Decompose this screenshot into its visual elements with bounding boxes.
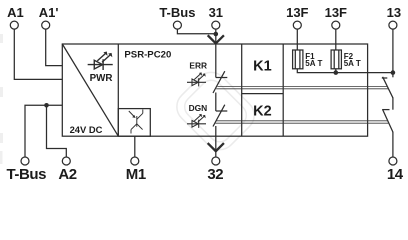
junction node 13 [391, 70, 396, 75]
divider power section [117, 44, 119, 136]
svg-text:PSR-PC20: PSR-PC20 [124, 50, 171, 61]
junction node A2 [44, 103, 49, 108]
terminal M1 [131, 157, 139, 165]
wire 13F right [335, 29, 337, 50]
contact K2 tick [382, 109, 389, 111]
watermark [170, 66, 261, 157]
svg-text:PWR: PWR [90, 73, 113, 84]
contact DGN tick [216, 110, 228, 112]
terminal T-Bus top [173, 21, 181, 29]
contact K1 stub [392, 73, 394, 78]
wire F1 out [297, 69, 393, 73]
optocoupler transistor symbol [129, 110, 143, 134]
arrow into module at 31 [209, 36, 224, 43]
arrow out of module at 32 [209, 144, 224, 151]
junction node F2 out [334, 70, 339, 75]
svg-text:T-Bus: T-Bus [159, 5, 195, 20]
svg-text:A1: A1 [7, 5, 24, 20]
mechanical link K1 [215, 87, 388, 124]
svg-text:ERR: ERR [189, 60, 207, 70]
terminal 13F right [332, 21, 340, 29]
svg-text:32: 32 [207, 166, 223, 183]
svg-text:M1: M1 [126, 166, 146, 183]
LED ERR [187, 72, 206, 86]
terminal T-Bus bottom [21, 157, 29, 165]
wire A1' [46, 29, 63, 66]
svg-text:31: 31 [209, 5, 223, 20]
svg-text:T-Bus: T-Bus [6, 166, 46, 183]
terminal 14 [389, 157, 397, 165]
svg-text:5A T: 5A T [344, 59, 361, 68]
contact DGN blade [213, 105, 225, 127]
optocoupler box [118, 109, 150, 137]
terminal 13 [389, 21, 397, 29]
watermark edge fragments [0, 34, 3, 164]
svg-text:14: 14 [387, 166, 404, 183]
divider K section left [241, 44, 243, 136]
svg-text:DGN: DGN [189, 103, 208, 113]
contact ERR tick [216, 77, 228, 79]
contact ERR blade [213, 71, 225, 93]
power supply diagonal [62, 44, 118, 136]
svg-text:A1': A1' [39, 5, 59, 20]
terminal A1 [10, 21, 18, 29]
wire between right contacts [392, 98, 394, 110]
contact K1 tick [382, 77, 388, 79]
wire 13F left [296, 29, 298, 50]
svg-text:13: 13 [387, 5, 401, 20]
wire 31 [215, 29, 217, 44]
terminal 32 [212, 157, 220, 165]
svg-text:24V DC: 24V DC [70, 124, 103, 135]
wire 31 internal [215, 45, 217, 78]
fuse F1 body [293, 50, 303, 69]
wire between contacts [215, 93, 217, 112]
fuse F2 body [331, 50, 341, 69]
wire M1 [134, 136, 136, 157]
svg-text:5A T: 5A T [305, 59, 322, 68]
svg-text:13F: 13F [325, 5, 347, 20]
wire 13 [392, 29, 394, 73]
terminal A2 [62, 157, 70, 165]
terminal 13F left [293, 21, 301, 29]
wire F2 out [335, 69, 337, 73]
contact K2 blade [383, 109, 394, 132]
wire A2 [47, 105, 67, 157]
wire 32 [215, 126, 217, 157]
svg-text:K2: K2 [253, 104, 272, 120]
contact K1 blade [383, 77, 393, 98]
module outline box [62, 44, 367, 136]
terminal A1' [42, 21, 50, 29]
svg-text:A2: A2 [58, 166, 76, 183]
wire 14 [392, 132, 394, 157]
wire T-Bus bottom [25, 105, 62, 157]
svg-text:K1: K1 [253, 58, 272, 74]
terminal 31 [212, 21, 220, 29]
divider K section right [282, 44, 284, 136]
divider K1 K2 [242, 93, 284, 95]
svg-text:13F: 13F [286, 5, 308, 20]
LED PWR [88, 52, 113, 70]
wire A1 [14, 29, 62, 79]
LED DGN [187, 114, 206, 128]
mechanical link K2 [217, 120, 388, 122]
wire T-Bus top [177, 29, 215, 34]
junction node 31 T-Bus [214, 32, 219, 37]
